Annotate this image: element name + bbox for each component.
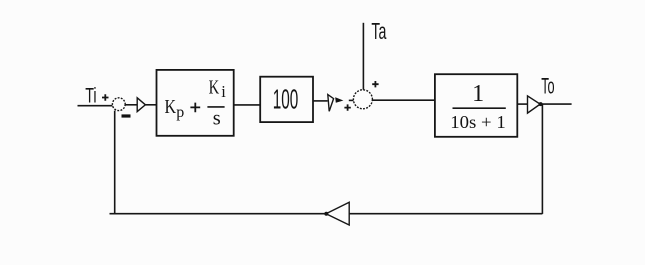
summing junction S2 — [353, 90, 372, 109]
wire feedback left vertical — [114, 111, 116, 214]
fraction bar Ki/s — [207, 106, 224, 108]
wire gain block to buffer A2 — [313, 100, 328, 102]
summing junction S1 — [112, 98, 125, 111]
fraction bar plant — [453, 107, 506, 109]
buffer triangle A1 — [137, 98, 145, 112]
junction dot at A3 output — [539, 102, 543, 106]
wire feedback bottom left segment — [110, 213, 327, 215]
plus sign at summing junction S2 left — [344, 104, 350, 110]
svg-text:p: p — [176, 104, 184, 121]
minus sign at summing junction S1 — [122, 114, 131, 117]
block plant 1/(10s+1) — [435, 74, 517, 137]
svg-text:K: K — [165, 97, 177, 118]
buffer triangle A3 — [528, 96, 541, 113]
svg-text:1: 1 — [472, 81, 484, 107]
svg-text:To: To — [541, 73, 554, 98]
svg-text:10s + 1: 10s + 1 — [450, 112, 505, 132]
plus sign at summing junction S1 — [102, 94, 109, 101]
buffer triangle A2 — [328, 95, 334, 112]
svg-text:100: 100 — [273, 83, 299, 114]
wire Ta input — [362, 23, 364, 90]
wire feedback right vertical — [541, 104, 543, 214]
svg-text:Ti: Ti — [85, 84, 96, 108]
svg-text:K: K — [209, 77, 220, 98]
label plus — [190, 103, 200, 113]
junction dot at A4 output — [324, 212, 328, 216]
wire output To — [540, 103, 571, 105]
block PI controller Kp + Ki/s — [157, 70, 234, 136]
arrowhead into summing junction S2 — [335, 97, 343, 103]
wire S2 to plant block — [372, 99, 435, 101]
plus sign at summing junction S2 top — [372, 81, 378, 87]
svg-text:i: i — [221, 82, 226, 101]
svg-text:Ta: Ta — [371, 18, 387, 44]
wire S1 to buffer A1 — [125, 104, 137, 106]
svg-text:s: s — [213, 106, 221, 130]
wire input Ti — [78, 105, 113, 107]
block gain 100 — [260, 77, 313, 122]
wire plant to buffer A3 — [517, 103, 527, 105]
wire A1 to PI block — [145, 104, 156, 106]
feedback buffer triangle A4 — [326, 202, 349, 225]
wire stub into S2 — [349, 99, 354, 101]
wire PI block to gain block — [234, 104, 261, 106]
wire feedback bottom right segment — [349, 213, 542, 215]
